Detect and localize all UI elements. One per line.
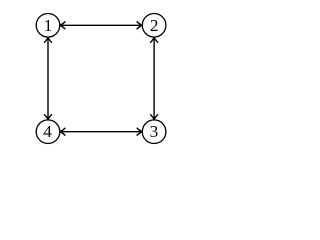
svg-text:1: 1 — [44, 16, 53, 35]
svg-text:3: 3 — [150, 122, 159, 141]
svg-text:4: 4 — [43, 122, 52, 141]
svg-text:2: 2 — [150, 16, 159, 35]
